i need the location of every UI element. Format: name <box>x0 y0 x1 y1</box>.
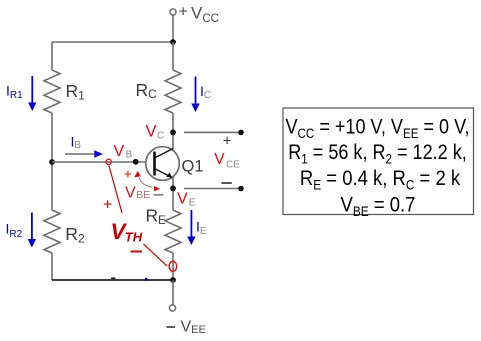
label VBE <box>125 184 163 201</box>
svg-text:BE: BE <box>136 189 150 201</box>
wire emitter lower <box>172 253 174 280</box>
label VC <box>146 123 165 142</box>
label Q1 <box>182 157 204 175</box>
label IB <box>71 134 82 151</box>
label IR2 <box>6 221 23 240</box>
resistor RE <box>165 210 181 253</box>
label RE <box>146 206 167 227</box>
svg-text:Q1: Q1 <box>182 157 204 175</box>
values text line 1 <box>286 115 470 141</box>
label VE <box>177 190 196 208</box>
label VCE <box>214 151 240 170</box>
junction bottom <box>170 277 176 283</box>
transistor Q1 <box>146 147 180 181</box>
values text line 3 <box>300 167 460 193</box>
wire VCE minus lead <box>184 188 241 190</box>
junction VE <box>170 185 176 191</box>
label IE <box>196 219 207 237</box>
label RC <box>136 80 158 101</box>
ellipse VTH reference node <box>169 261 177 271</box>
wire collector <box>172 113 174 149</box>
artifact dark nick on rail <box>111 278 115 280</box>
label IC <box>200 83 211 101</box>
values text line 4 <box>341 193 416 219</box>
svg-text:VBE = 0.7: VBE = 0.7 <box>341 193 416 219</box>
svg-text:RE = 0.4 k, RC = 2 k: RE = 0.4 k, RC = 2 k <box>300 167 460 193</box>
junction base-left <box>49 159 55 165</box>
svg-text:V: V <box>214 151 225 168</box>
annotation VTH plus <box>103 197 112 214</box>
arrow IR1 <box>28 76 36 111</box>
resistor RC <box>165 70 181 113</box>
svg-text:+: + <box>103 197 112 214</box>
svg-text:V: V <box>125 184 136 201</box>
svg-text:B: B <box>126 149 133 160</box>
svg-text:+: + <box>124 166 132 181</box>
annotation VBE arc <box>134 171 160 191</box>
artifact blue dot on rail <box>145 278 147 281</box>
arrow IB <box>65 150 103 157</box>
svg-text:V: V <box>146 123 157 141</box>
label +VCC <box>179 4 219 26</box>
svg-text:R1 = 56 k, R2 = 12.2 k,: R1 = 56 k, R2 = 12.2 k, <box>288 141 467 167</box>
svg-text:+: + <box>223 132 232 149</box>
node VB circle <box>106 159 111 164</box>
label VB <box>114 143 133 161</box>
leader VTH to emitter ellipse <box>144 244 168 266</box>
wire emitter <box>172 177 174 210</box>
wire top rail <box>52 41 173 43</box>
terminal -VEE <box>169 305 175 311</box>
svg-text:+: + <box>179 4 188 21</box>
values box <box>283 108 474 215</box>
wire VEE stub <box>172 280 174 305</box>
label R2 <box>65 224 85 246</box>
label -VEE <box>167 319 206 336</box>
wire VCE plus lead <box>184 131 241 133</box>
wire left mid <box>51 113 53 210</box>
label R1 <box>66 81 86 103</box>
svg-text:V: V <box>177 190 188 207</box>
arrow IE <box>187 210 195 245</box>
wire right upper <box>172 42 174 70</box>
node base dot <box>133 159 139 165</box>
arrow IR2 <box>28 213 36 248</box>
node VCE plus <box>238 130 244 136</box>
leader VB to VTH <box>109 165 122 213</box>
label VTH <box>111 219 143 244</box>
node VCE minus <box>238 186 244 192</box>
svg-text:CE: CE <box>226 159 240 170</box>
wire bottom rail <box>52 279 173 281</box>
label minus VCE <box>222 182 232 184</box>
label IR1 <box>6 82 23 101</box>
arrow IC <box>191 77 199 113</box>
annotation VTH minus <box>131 251 143 253</box>
wire base <box>52 161 146 163</box>
wire VCC stub <box>172 15 174 42</box>
annotation VBE plus <box>124 166 132 181</box>
wire left lower <box>51 253 53 280</box>
svg-text:E: E <box>189 197 196 209</box>
svg-text:V: V <box>114 143 125 160</box>
svg-text:C: C <box>157 130 164 141</box>
terminal +VCC <box>170 9 176 15</box>
resistor R1 <box>44 70 60 113</box>
wire left upper <box>51 42 53 70</box>
values text line 2 <box>288 141 467 167</box>
resistor R2 <box>44 210 60 253</box>
label plus VCE <box>223 132 232 149</box>
junction VC <box>170 129 176 135</box>
svg-text:TH: TH <box>125 229 143 244</box>
junction top <box>170 39 176 45</box>
